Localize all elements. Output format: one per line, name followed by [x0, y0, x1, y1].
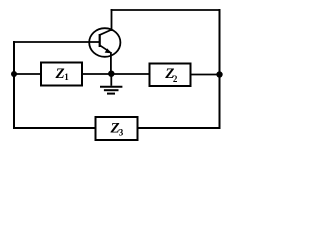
wire: collector vertical [111, 9, 113, 31]
svg-text:2: 2 [173, 74, 178, 84]
ground [100, 74, 122, 94]
node: junction dot right [216, 71, 222, 77]
wire: mid rail - left lead to Z1 [13, 73, 42, 75]
wire: bottom rail left of Z3 [13, 127, 96, 129]
wire: right vertical rail [219, 9, 221, 129]
transistor Q1 [89, 28, 120, 57]
wire: left vertical rail [13, 41, 15, 129]
wire: Z2 right lead [190, 74, 220, 76]
wire: node to Z2 left lead [111, 73, 150, 75]
node: junction dot emitter/ground [108, 71, 114, 77]
impedance Z1 box [41, 63, 82, 86]
impedance Z2 box [150, 64, 191, 87]
node: junction dot left [11, 71, 17, 77]
wire: emitter vertical [110, 52, 112, 74]
svg-text:3: 3 [119, 128, 124, 138]
wire: bottom rail right of Z3 [137, 127, 221, 129]
svg-text:Z: Z [55, 66, 65, 82]
wire: Z1 right lead to node [81, 73, 112, 75]
impedance Z3 box [96, 117, 138, 140]
wire: top rail [111, 9, 221, 11]
svg-text:1: 1 [64, 72, 69, 82]
wire: base lead horizontal [13, 41, 100, 43]
